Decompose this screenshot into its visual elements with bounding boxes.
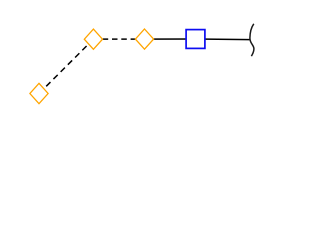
node: diamond 1 (orange, bottom-left) [30, 83, 48, 103]
bracket: reducing-end squiggle [250, 24, 254, 56]
wire: dashed horizontal link diamond2-diamond3 [93, 38, 144, 40]
node: diamond 3 (orange) [135, 29, 153, 49]
node: blue square [186, 30, 205, 49]
wire: dashed diagonal link diamond1-diamond2 [39, 39, 93, 93]
wire: solid link square-bracket [196, 38, 250, 41]
node: diamond 2 (orange, middle) [84, 29, 102, 49]
wire: solid link diamond3-square [145, 38, 196, 40]
